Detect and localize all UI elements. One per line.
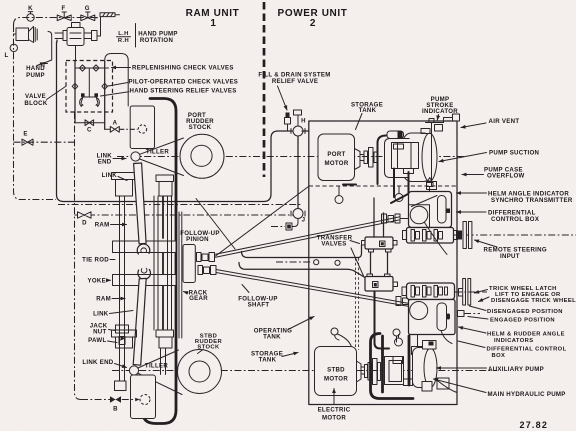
unit divider heavy dashed line bbox=[263, 2, 266, 177]
valve C on block bottom crossover bbox=[75, 120, 105, 134]
valve A and port to rudder housing bbox=[105, 120, 120, 133]
label AIR VENT w/ arrow bbox=[461, 118, 519, 128]
label FILL & DRAIN SYSTEM RELIEF VALVE w/ leader bbox=[258, 72, 330, 111]
lower link block left bbox=[112, 330, 137, 348]
label STORAGE TANK (upper) w/ leader bbox=[351, 102, 383, 130]
label MAIN HYDRAULIC PUMP w/ arrow bbox=[434, 379, 566, 398]
motor-pump coupling (lower) bbox=[365, 359, 381, 385]
label FOLLOW-UP PINION bbox=[180, 230, 219, 243]
power unit enclosure bbox=[309, 121, 457, 405]
wire: pipe between transfer valves and down bbox=[371, 198, 390, 349]
label TRANSFER VALVES w/ leaders bbox=[317, 235, 364, 278]
lower link block right bbox=[156, 330, 174, 348]
label LINK (upper) w/ leader bbox=[102, 172, 127, 181]
label LINK w/ leader bbox=[93, 311, 133, 318]
thick oil pipes (lower pump) bbox=[371, 334, 414, 399]
wire: dash-dot return main down left of ram bbox=[75, 112, 82, 400]
rudder housing plate (upper) bbox=[130, 106, 154, 149]
valve F bbox=[57, 5, 71, 21]
wire: pipe H to J bbox=[298, 131, 309, 209]
label PUMP STROKE INDICATOR w/ arrow bbox=[422, 96, 458, 120]
replenishing line with check valves bbox=[76, 65, 109, 71]
label DIFFERENTIAL CONTROL BOX (lower) w/ leader bbox=[458, 341, 567, 359]
label FOLLOW-UP SHAFT w/ leader bbox=[238, 285, 277, 309]
label PUMP SUCTION w/ leader bbox=[439, 150, 539, 162]
tie rod crossbar bbox=[113, 241, 177, 253]
wire: drop from fitting to rotation cylinder bbox=[95, 17, 101, 36]
transfer valve 2 bbox=[365, 274, 398, 291]
figure number 27.82 bbox=[520, 420, 549, 430]
label REMOTE STEERING INPUT w/ arrow bbox=[475, 240, 547, 260]
label HELM ANGLE INDICATOR SYNCHRO TRANSMITTER w/ arrow bbox=[457, 191, 573, 205]
breather tank on pump bbox=[387, 131, 404, 139]
ram foot bbox=[115, 381, 127, 391]
main hydraulic pump (upper) bbox=[404, 133, 438, 182]
control box 1 top fitting bbox=[427, 178, 434, 192]
rack gear bar bbox=[179, 212, 182, 338]
label OPERATING TANK w/ arrow bbox=[254, 317, 314, 341]
label RACK GEAR w/ arrow bbox=[184, 290, 209, 303]
wire: valve block left pipe bbox=[74, 61, 76, 123]
lower shaft coupling at pinion bbox=[198, 266, 216, 275]
title RAM UNIT 1 bbox=[186, 8, 240, 29]
title POWER UNIT 2 bbox=[278, 8, 348, 29]
label PILOT-OPERATED CHECK VALVES w/ leader bbox=[107, 78, 238, 86]
control box 2 body bbox=[409, 300, 456, 335]
fittings below control box 2 bbox=[395, 331, 453, 355]
wire: center drop in valve block bbox=[83, 68, 96, 97]
wire: stbd centerline dash-dot bbox=[112, 370, 497, 372]
engaged position spool bbox=[458, 311, 481, 317]
transfer valve 1 bbox=[362, 237, 398, 252]
wire: curve from spool down bbox=[425, 223, 448, 255]
wire: drain dash-dot with ports bbox=[276, 260, 340, 266]
pilot-operated check valves bbox=[72, 83, 107, 89]
tiller (port) bbox=[131, 138, 184, 176]
label DISENGAGED POSITION w/ leader bbox=[470, 306, 563, 315]
label ENGAGED POSITION w/ leader bbox=[468, 317, 555, 324]
thick feed into control box bbox=[391, 194, 409, 204]
valve D on ram line bbox=[75, 212, 295, 227]
drain hooks upper bbox=[335, 186, 403, 204]
wire: left vertical dash-dot main suction line bbox=[14, 25, 57, 200]
label PORT RUDDER STOCK bbox=[186, 112, 214, 131]
air vent fitting bbox=[444, 114, 460, 123]
label PAWL w/ leader bbox=[88, 337, 117, 344]
label HAND STEERING RELIEF VALVES w/ leader bbox=[101, 88, 237, 97]
main hydraulic pump (lower) bbox=[413, 341, 458, 393]
label AUXILIARY PUMP w/ arrow bbox=[437, 366, 545, 373]
link wrench (lower) bbox=[133, 268, 150, 365]
rudder housing plate (lower) bbox=[131, 375, 156, 419]
label RAM (upper) w/ arrow bbox=[95, 222, 127, 229]
wire: top hand-pump dash-dot header line bbox=[14, 18, 100, 26]
wire: valve block right pipe bbox=[104, 61, 106, 129]
jack nut bbox=[116, 325, 129, 333]
wire: dash-dot crossover line (lower, through valve D) bbox=[58, 204, 301, 206]
hand pump rotation cylinder bbox=[55, 23, 97, 62]
control box 1 body bbox=[409, 192, 452, 228]
tank split dashed lines bbox=[309, 186, 457, 350]
thick linkage pipe around ram bbox=[143, 99, 177, 424]
label DIFFERENTIAL CONTROL BOX (upper) w/ arrow bbox=[457, 210, 540, 224]
valve G bbox=[81, 5, 95, 21]
thick oil pipes (upper pump) bbox=[343, 136, 409, 198]
valve J bbox=[291, 209, 305, 224]
label STORAGE TANK (lower) w/ arrow bbox=[251, 351, 298, 364]
yoke crossbar bbox=[113, 275, 177, 286]
pump fittings rect right bbox=[437, 378, 449, 389]
drain fitting below J bbox=[271, 219, 298, 231]
valve L bbox=[4, 44, 17, 59]
label HELM & RUDDER ANGLE INDICATORS w/ arrow bbox=[459, 327, 565, 344]
label L.H / R.H HAND PUMP ROTATION bbox=[117, 24, 178, 48]
ram rods bbox=[120, 196, 172, 381]
upper link block left bbox=[112, 173, 137, 197]
wire: tiller centerline dash-dot bbox=[117, 156, 466, 158]
hand pump motor block bbox=[14, 27, 38, 43]
pump stroke indicator rod bbox=[421, 119, 444, 190]
pump front plate (upper) bbox=[392, 143, 419, 174]
port rudder stock bbox=[180, 134, 224, 178]
valve H bbox=[291, 110, 306, 136]
follow-up shaft (upper run to remote steering) bbox=[216, 214, 409, 257]
label YOKE w/ arrow bbox=[88, 278, 111, 285]
upper link block right bbox=[156, 175, 174, 196]
label TIE ROD w/ leader bbox=[82, 257, 115, 264]
label VALVE BLOCK w/ leader bbox=[24, 87, 65, 108]
control box 2 spool shaft bbox=[402, 283, 455, 300]
valve K bbox=[27, 5, 34, 21]
wire: leader from tiller line down to rack bbox=[196, 199, 235, 250]
wire: block top-right pipe over to rudder housing bbox=[105, 54, 129, 107]
label LINK END (upper) w/ arrow bbox=[97, 153, 126, 166]
pawl bbox=[119, 337, 125, 345]
tiller (stbd) bbox=[129, 350, 182, 395]
remote steering input shaft + trick wheel discs (upper) bbox=[453, 222, 576, 249]
valve E on suction branch bbox=[14, 131, 75, 146]
follow-up shaft (lower run to trick wheel) bbox=[216, 270, 409, 307]
upper shaft coupling at pinion bbox=[197, 253, 215, 262]
drain hooks lower bbox=[331, 328, 400, 347]
wire: leader from pinion to power unit corner bbox=[216, 187, 309, 257]
motor-pump coupling (upper) bbox=[364, 148, 377, 168]
transfer pipe lower bbox=[239, 263, 365, 278]
hand pump crank bbox=[41, 32, 52, 67]
fill and drain relief valve bbox=[285, 113, 291, 132]
transfer pipe upper bbox=[242, 245, 362, 258]
valve block dashed enclosure bbox=[66, 61, 113, 113]
stbd rudder stock bbox=[178, 350, 222, 394]
label RAM (lower) w/ arrow bbox=[96, 296, 125, 303]
follow-up pinion housing bbox=[183, 245, 195, 283]
label TRICK WHEEL LATCH w/ arrows bbox=[475, 286, 576, 304]
label PUMP CASE OVERFLOW w/ arrow bbox=[462, 167, 525, 180]
label ELECTRIC MOTOR w/ arrow bbox=[318, 389, 351, 422]
valve B (shutoff to stbd housing) bbox=[81, 396, 140, 412]
auxiliary pump front plate (lower) bbox=[385, 357, 413, 386]
stbd motor bbox=[315, 347, 365, 396]
hatched pipe fitting top right bbox=[100, 13, 120, 17]
hand steering relief valves bbox=[80, 93, 100, 106]
control box 1 spool shaft bbox=[403, 228, 458, 244]
label JACK NUT w/ leader bbox=[90, 323, 115, 336]
trick wheel discs (lower) bbox=[455, 279, 487, 306]
label HAND PUMP w/ leader bbox=[26, 63, 45, 80]
label LINK END (lower) w/ arrow bbox=[82, 359, 126, 368]
port motor bbox=[318, 134, 364, 181]
link wrench (upper) bbox=[134, 163, 150, 254]
auxiliary pump housing (upper) bbox=[385, 139, 410, 178]
wire: hand pump discharge pipe to ram (solid) bbox=[57, 40, 293, 202]
label REPLENISHING CHECK VALVES w/ arrow bbox=[112, 64, 234, 71]
label STBD RUDDER STOCK bbox=[195, 334, 223, 354]
valve A hidden port on housing bbox=[119, 125, 146, 133]
